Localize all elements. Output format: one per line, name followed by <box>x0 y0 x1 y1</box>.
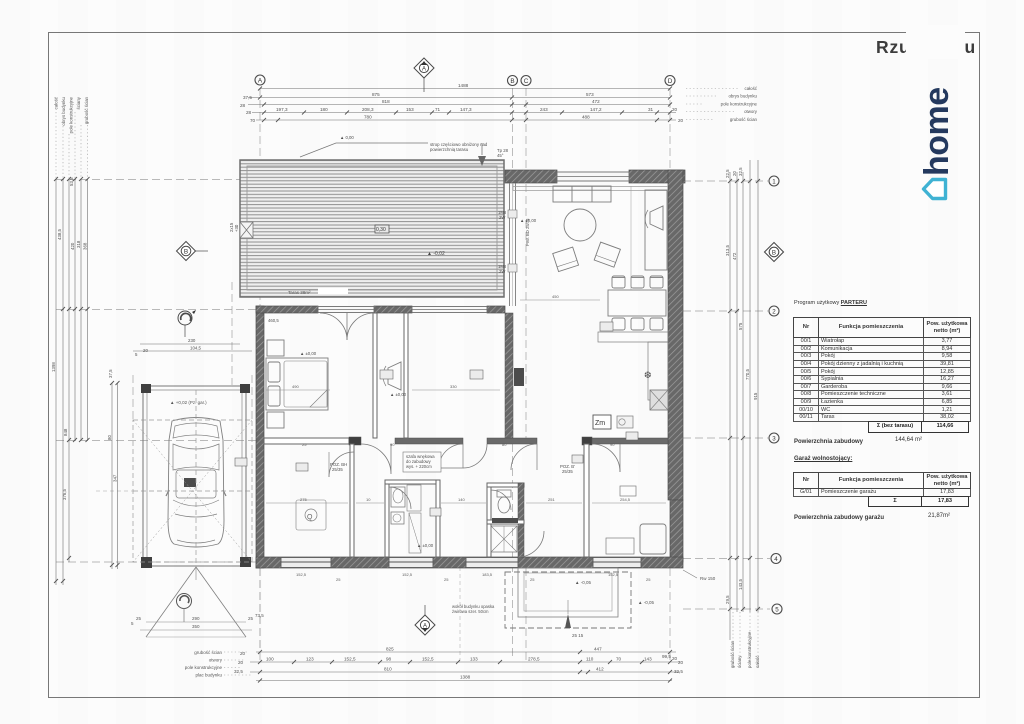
wall W12 mid horizontal seg3 <box>487 438 537 444</box>
section diamond A bottom <box>415 605 435 635</box>
svg-text:472: 472 <box>732 252 737 260</box>
bottom windows (lighter blocks with sills) <box>281 558 641 568</box>
svg-text:180: 180 <box>320 107 328 112</box>
svg-text:197,3: 197,3 <box>276 107 288 112</box>
svg-text:350: 350 <box>192 624 200 629</box>
garage roof outline <box>143 386 246 566</box>
wall W9 bottom outer <box>256 557 683 568</box>
svg-text:całość: całość <box>755 655 760 668</box>
right margin dim lines <box>730 160 758 640</box>
top dim texts <box>240 83 684 123</box>
svg-text:2: 2 <box>772 308 776 315</box>
window O1 bottom <box>281 558 331 568</box>
svg-text:▲ ±0,00: ▲ ±0,00 <box>390 392 407 397</box>
svg-text:Rw 150: Rw 150 <box>700 576 716 581</box>
svg-text:25: 25 <box>248 616 254 621</box>
powierzchnia zabudowy <box>794 439 863 445</box>
sum row garaż <box>868 496 969 508</box>
svg-text:73,5: 73,5 <box>255 613 264 618</box>
svg-text:450: 450 <box>552 294 559 299</box>
garaż heading <box>794 456 852 462</box>
section diamond A top <box>414 58 434 92</box>
svg-text:Zm: Zm <box>595 420 605 427</box>
dark sill <box>492 518 518 523</box>
svg-text:45°: 45° <box>497 153 504 158</box>
french door bedroom->terrace double arc <box>320 313 347 340</box>
sofa living <box>553 186 611 202</box>
svg-text:+30: +30 <box>234 224 239 232</box>
svg-text:460,5: 460,5 <box>268 318 279 323</box>
wall W19 bathroom top <box>385 480 440 484</box>
leader line annotation terrace <box>300 143 486 166</box>
left axis marker B <box>177 242 209 261</box>
svg-text:20: 20 <box>672 107 678 112</box>
furniture: bedroom (sypialnia) <box>266 340 328 428</box>
svg-text:▲ +0,02 (Pz. gar.): ▲ +0,02 (Pz. gar.) <box>170 400 207 405</box>
svg-text:488: 488 <box>582 115 590 120</box>
svg-text:110: 110 <box>586 657 594 662</box>
svg-text:32,5: 32,5 <box>674 669 683 674</box>
small texts under bottom wall windows <box>296 572 651 582</box>
lowered ceiling strip living <box>513 183 668 191</box>
svg-text:818: 818 <box>382 99 390 104</box>
svg-text:20: 20 <box>732 171 737 176</box>
terrace small labels <box>375 225 389 233</box>
svg-text:71: 71 <box>435 107 441 112</box>
svg-text:▲ ±0,00: ▲ ±0,00 <box>300 351 317 356</box>
wall W3 top segment <box>374 306 412 313</box>
svg-text:2W: 2W <box>499 215 505 220</box>
svg-text:3: 3 <box>772 435 776 442</box>
left marker north/section circle <box>178 310 196 337</box>
svg-text:368: 368 <box>83 242 88 250</box>
svg-text:230: 230 <box>188 338 196 343</box>
wall W10 mid horizontal seg1 <box>264 438 349 444</box>
svg-text:25: 25 <box>336 577 341 582</box>
svg-text:grubość ścian: grubość ścian <box>730 117 758 122</box>
tv trapezoid <box>650 206 663 230</box>
svg-text:grubość ścian: grubość ścian <box>194 650 222 655</box>
svg-text:32,5: 32,5 <box>738 167 743 176</box>
svg-text:825: 825 <box>386 647 394 652</box>
svg-text:B: B <box>184 249 188 256</box>
furniture: shower room (pom. techniczne) <box>491 526 517 552</box>
bed sypialnia <box>266 358 328 410</box>
furniture: wc toilet <box>492 490 518 523</box>
svg-text:347: 347 <box>113 474 118 482</box>
svg-text:37,5: 37,5 <box>108 369 113 378</box>
svg-text:pole konstrukcyjne: pole konstrukcyjne <box>69 96 74 133</box>
wall W16 room2/living <box>505 313 513 438</box>
svg-text:25: 25 <box>646 577 651 582</box>
svg-text:412: 412 <box>596 667 604 672</box>
svg-text:▲ 0,00: ▲ 0,00 <box>340 135 354 140</box>
furniture: room2 armchair <box>383 362 401 390</box>
wall W22 wc top <box>487 483 524 487</box>
svg-text:25/35: 25/35 <box>562 469 573 474</box>
sum row parter <box>868 421 969 433</box>
wall W25 hall/room right <box>584 444 589 557</box>
wall W13 mid horizontal seg4 <box>592 438 668 444</box>
svg-text:obrys budynku: obrys budynku <box>728 94 757 99</box>
entrance porch bottom <box>452 568 716 638</box>
svg-text:37,5: 37,5 <box>243 95 252 100</box>
window O4 bottom <box>593 558 641 568</box>
entrance door arc at bottom <box>518 531 544 557</box>
furniture: right lower room (pokoj) <box>606 486 666 554</box>
garage corner posts <box>141 384 151 393</box>
svg-text:152,5: 152,5 <box>296 572 307 577</box>
svg-text:▲ ±0,00: ▲ ±0,00 <box>417 543 434 548</box>
outer walls <box>256 170 685 568</box>
coffee table living <box>564 209 596 241</box>
svg-text:243: 243 <box>540 107 548 112</box>
svg-text:90: 90 <box>390 442 395 447</box>
svg-text:całość: całość <box>745 86 758 91</box>
svg-text:B: B <box>772 250 776 257</box>
door room5 from corridor <box>329 452 354 477</box>
small framed labels in plan <box>235 322 638 516</box>
garage dashed guides + diagonals <box>133 390 252 568</box>
svg-text:376,5: 376,5 <box>62 488 67 500</box>
svg-text:438,5: 438,5 <box>57 228 62 240</box>
svg-text:152,5: 152,5 <box>608 572 619 577</box>
svg-text:208,3: 208,3 <box>362 107 374 112</box>
svg-text:31: 31 <box>648 107 654 112</box>
svg-text:ściany: ściany <box>737 655 742 668</box>
wall W1 left outer <box>256 306 264 568</box>
svg-text:otwory: otwory <box>209 658 223 663</box>
svg-text:25 15: 25 15 <box>572 633 584 638</box>
left rotated axis labels with dotted leaders <box>54 96 90 133</box>
svg-text:home: home <box>918 87 956 176</box>
svg-text:▲ -0,05: ▲ -0,05 <box>638 600 654 605</box>
svg-text:140: 140 <box>458 497 465 502</box>
svg-text:80: 80 <box>107 435 112 440</box>
table garaż <box>793 472 971 497</box>
window O6 room2 top <box>412 307 487 313</box>
svg-text:80: 80 <box>502 442 507 447</box>
svg-text:98: 98 <box>386 657 392 662</box>
svg-text:20: 20 <box>678 118 684 123</box>
svg-text:275: 275 <box>300 497 307 502</box>
title Rzut parteru (partially covered) <box>876 37 1024 59</box>
wall pier P2 <box>582 437 592 445</box>
svg-text:plac budynku: plac budynku <box>195 673 222 678</box>
svg-text:472: 472 <box>592 99 600 104</box>
svg-text:770,5: 770,5 <box>745 368 750 380</box>
svg-text:123: 123 <box>306 657 314 662</box>
svg-text:143: 143 <box>644 657 652 662</box>
szafa wnekowa label box <box>403 452 441 472</box>
svg-text:147,3: 147,3 <box>460 107 472 112</box>
wall W18 bathroom left <box>385 480 389 557</box>
svg-text:10: 10 <box>366 497 371 502</box>
svg-text:grubość ścian: grubość ścian <box>730 640 735 668</box>
door bedroom1 (in mid wall) <box>361 444 391 474</box>
kitchen counter L <box>598 332 668 342</box>
svg-text:ściany: ściany <box>76 96 81 109</box>
svg-text:C: C <box>524 78 529 85</box>
tick marks top dims <box>258 87 672 123</box>
svg-text:otwory: otwory <box>744 109 758 114</box>
svg-text:254,5: 254,5 <box>620 497 631 502</box>
door bathroom <box>389 487 411 509</box>
svg-text:153: 153 <box>406 107 414 112</box>
svg-text:grubość ścian: grubość ścian <box>84 96 89 124</box>
svg-text:4: 4 <box>774 556 778 563</box>
furniture: living room <box>514 186 668 429</box>
wall W2 top bedroom segment <box>256 306 318 313</box>
svg-text:żwirowa szer. 50cm: żwirowa szer. 50cm <box>452 609 489 614</box>
svg-text:Taras 38m²: Taras 38m² <box>288 290 311 295</box>
dim line between house and garage (left) <box>133 344 252 351</box>
gable triangle below garage <box>131 567 264 637</box>
car top view <box>166 418 226 548</box>
svg-text:278,5: 278,5 <box>528 657 540 662</box>
wall W20 bathroom right <box>436 480 440 557</box>
svg-text:251: 251 <box>548 497 555 502</box>
wall W5 living top left <box>505 170 557 183</box>
top right axis labels with dotted leaders <box>721 86 758 122</box>
furniture: room5 bottom-left washer symbol <box>296 500 326 530</box>
svg-text:powierzchnią tarasu: powierzchnią tarasu <box>430 147 469 152</box>
left margin dim lines <box>56 179 118 585</box>
armchair right (rotated) <box>594 242 620 267</box>
scattered plan annotations <box>229 135 575 548</box>
door living->corridor <box>511 444 537 470</box>
svg-text:99,5: 99,5 <box>662 654 671 659</box>
window O7 living top <box>557 172 629 181</box>
svg-text:25/35: 25/35 <box>332 467 343 472</box>
svg-text:2W: 2W <box>499 269 505 274</box>
top dimension block <box>248 89 676 121</box>
svg-text:70: 70 <box>250 118 256 123</box>
svg-text:143,5: 143,5 <box>738 578 743 590</box>
svg-text:152,5: 152,5 <box>344 657 356 662</box>
svg-text:Q: Q <box>307 514 313 521</box>
window O2 bottom <box>389 558 433 568</box>
program użytkowy heading <box>794 300 867 306</box>
svg-text:313,5: 313,5 <box>725 244 730 256</box>
svg-text:20: 20 <box>238 660 244 665</box>
svg-text:25: 25 <box>136 616 142 621</box>
svg-text:915: 915 <box>753 392 758 400</box>
kitchen counter right <box>648 342 668 400</box>
terrace side steps X <box>240 222 253 238</box>
powierzchnia zabudowy garażu <box>794 515 884 521</box>
svg-text:5: 5 <box>131 621 134 626</box>
svg-text:D: D <box>668 78 673 85</box>
svg-text:100: 100 <box>266 657 274 662</box>
garage carport <box>141 384 251 568</box>
svg-text:25: 25 <box>530 577 535 582</box>
svg-text:29,5: 29,5 <box>725 595 730 604</box>
glass wall living-terrace <box>508 183 517 306</box>
wall W4 top segment <box>487 306 505 313</box>
door arcs <box>320 313 620 557</box>
terrace roof hatched (Taras 00/11) <box>240 160 504 297</box>
door wc <box>491 490 511 510</box>
svg-text:183,5: 183,5 <box>482 572 493 577</box>
small table label <box>593 415 611 429</box>
svg-text:780: 780 <box>364 115 372 120</box>
svg-text:1: 1 <box>772 178 776 185</box>
door room2 <box>439 444 463 468</box>
svg-text:A: A <box>422 67 426 73</box>
furniture: bathroom <box>391 485 421 553</box>
svg-text:573: 573 <box>586 92 594 97</box>
svg-text:pole konstrukcyjne: pole konstrukcyjne <box>747 631 752 668</box>
svg-text:875: 875 <box>372 92 380 97</box>
circle A <box>255 75 675 86</box>
wall W14 bedroom/wardrobe <box>373 313 377 438</box>
svg-text:330: 330 <box>450 384 457 389</box>
wall W8 right outer lower <box>670 500 683 562</box>
svg-text:pole konstrukcyjne: pole konstrukcyjne <box>185 665 223 670</box>
wall W23 wc right <box>518 483 524 557</box>
rug edge line <box>630 186 632 290</box>
svg-text:290: 290 <box>192 616 200 621</box>
wall W15 wardrobe/room2 <box>404 313 408 438</box>
fridge <box>514 368 524 386</box>
svg-text:▲ -0,05: ▲ -0,05 <box>575 580 591 585</box>
chairs top row <box>612 276 625 288</box>
wall W7 right outer upper <box>668 170 683 500</box>
wall W6 living top right <box>629 170 685 183</box>
armchair left (rotated) <box>553 247 579 272</box>
svg-text:20: 20 <box>678 660 684 665</box>
svg-text:25: 25 <box>302 442 307 447</box>
right bottom rotated labels <box>730 631 760 668</box>
svg-text:▲ ±0,00: ▲ ±0,00 <box>520 218 537 223</box>
svg-text:1388: 1388 <box>460 675 471 680</box>
svg-text:28: 28 <box>246 110 252 115</box>
svg-text:152,5: 152,5 <box>422 657 434 662</box>
dashed axis lines <box>56 88 770 660</box>
svg-text:147,2: 147,2 <box>590 107 602 112</box>
bottom-left axis labels with dotted leaders <box>185 650 223 678</box>
svg-text:53,5: 53,5 <box>69 177 74 186</box>
dining table <box>608 290 666 316</box>
shower techniczne <box>491 526 517 552</box>
svg-text:1488: 1488 <box>458 83 469 88</box>
svg-text:A: A <box>258 77 263 84</box>
home logo (rotated text + teal house icon) <box>903 80 973 210</box>
svg-text:20: 20 <box>143 348 148 353</box>
french door O5 bedroom-terrace <box>318 307 374 313</box>
interior walls <box>264 313 668 557</box>
wall W17 room5/hall <box>350 444 354 557</box>
chairs bottom row <box>612 318 625 330</box>
svg-text:B: B <box>510 78 514 85</box>
svg-text:22,5: 22,5 <box>725 169 730 178</box>
svg-text:490: 490 <box>292 384 299 389</box>
svg-text:28: 28 <box>240 103 246 108</box>
bottom dimension block <box>250 652 680 681</box>
toilet WC <box>498 497 510 513</box>
svg-text:❆: ❆ <box>644 370 652 380</box>
svg-text:152,5: 152,5 <box>402 572 413 577</box>
svg-text:5: 5 <box>135 352 138 357</box>
wall W11 mid horizontal seg2 <box>395 438 463 444</box>
svg-text:810: 810 <box>384 667 392 672</box>
svg-text:420: 420 <box>70 242 75 250</box>
wall W21 wc left <box>487 483 491 557</box>
svg-text:1398: 1398 <box>51 362 56 372</box>
table parter <box>793 317 971 422</box>
svg-text:0,30: 0,30 <box>376 227 386 233</box>
svg-text:całość: całość <box>54 96 59 109</box>
svg-text:pole konstrukcyjne: pole konstrukcyjne <box>721 102 758 107</box>
circled marker with arrow <box>177 594 192 609</box>
wall W24 wc/shower <box>487 520 524 524</box>
svg-text:5: 5 <box>775 606 779 613</box>
svg-text:32,5: 32,5 <box>234 669 243 674</box>
door right lower room <box>592 444 620 472</box>
svg-text:wys. + 220cm: wys. + 220cm <box>406 464 432 469</box>
internal dimension chains <box>266 300 666 503</box>
svg-text:133: 133 <box>470 657 478 662</box>
svg-text:20: 20 <box>672 656 678 661</box>
sideboard TV living <box>645 190 667 270</box>
logo house icon <box>924 180 946 199</box>
svg-text:obrys budynku: obrys budynku <box>61 96 66 125</box>
dims under triangle <box>146 621 246 623</box>
white box covering title middle <box>906 25 965 59</box>
svg-text:A: A <box>423 624 427 630</box>
stove <box>650 390 668 410</box>
svg-text:70: 70 <box>616 657 622 662</box>
wall pier P1 <box>349 437 361 445</box>
svg-text:575: 575 <box>738 322 743 330</box>
car body <box>168 418 224 548</box>
svg-text:848: 848 <box>63 428 68 436</box>
svg-text:318: 318 <box>76 240 81 248</box>
svg-text:104,5: 104,5 <box>190 346 202 351</box>
svg-text:447: 447 <box>594 647 602 652</box>
right axis circles 1..5 and B <box>765 176 784 614</box>
entrance door O3 bottom <box>466 558 518 568</box>
svg-text:25: 25 <box>444 577 449 582</box>
svg-text:90: 90 <box>610 442 615 447</box>
svg-text:▲ -0,02: ▲ -0,02 <box>427 251 445 257</box>
